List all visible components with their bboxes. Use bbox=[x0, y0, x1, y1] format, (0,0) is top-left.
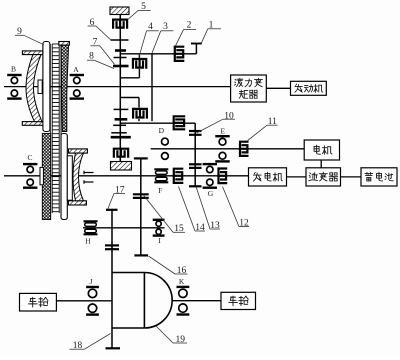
svg-text:12: 12 bbox=[239, 219, 249, 229]
gear pair on shaft 13 lower bbox=[189, 164, 202, 168]
bearing B bbox=[7, 75, 21, 99]
node C bbox=[27, 153, 32, 162]
label 10 bbox=[197, 111, 236, 133]
node I bbox=[158, 236, 161, 245]
clutch 4 upper output link bbox=[120, 54, 139, 78]
label 17 bbox=[108, 186, 125, 210]
wire shaft row3 (intermediate shaft axis H-I) bbox=[83, 227, 165, 229]
vertical gear shaft 13 bbox=[194, 123, 196, 186]
gear bar c bbox=[114, 57, 127, 59]
vertical planetary shaft (sun shaft) bbox=[119, 15, 121, 162]
gear bar g bbox=[113, 124, 126, 126]
node G bbox=[208, 189, 214, 198]
svg-text:13: 13 bbox=[210, 221, 220, 231]
node J bbox=[89, 277, 92, 286]
gear bar f bold bbox=[115, 118, 128, 121]
top pulley left cone bbox=[26, 55, 42, 122]
clutch 4 upper bbox=[133, 58, 146, 69]
final shaft bottom cap (item 18) bbox=[106, 347, 121, 349]
svg-text:D: D bbox=[159, 126, 165, 135]
wire shaft rowDE (motor shaft axis D-E) bbox=[151, 148, 305, 150]
clutch 10 bbox=[173, 116, 186, 129]
box battery 蓄电池 bbox=[361, 168, 397, 186]
label 12 bbox=[223, 187, 250, 229]
brake 6 comb bbox=[113, 15, 127, 29]
label 5 bbox=[128, 2, 151, 20]
label 15 bbox=[143, 195, 185, 235]
clutch 14 bbox=[173, 169, 184, 183]
ground frame lower bbox=[111, 162, 132, 171]
gear shaft 16 bottom cap bbox=[134, 254, 148, 256]
ground frame top (item 5 target) bbox=[110, 7, 129, 15]
vertical gear shaft 15/16 bbox=[140, 159, 142, 256]
node D bbox=[159, 126, 165, 135]
node B bbox=[11, 65, 16, 74]
gear bar d bold (item 8 target) bbox=[113, 65, 129, 68]
top pulley collar bbox=[38, 80, 42, 94]
bearing A bbox=[70, 75, 84, 99]
bearing J bbox=[86, 287, 99, 315]
top pulley centre disc bbox=[43, 42, 50, 132]
CVT chain wrap cross-hatch bbox=[42, 134, 50, 220]
clutch 4 lower input link bbox=[120, 98, 139, 122]
wire shaft row2 (output/generator shaft axis C-F-G) bbox=[4, 175, 249, 177]
wire inverter to battery bbox=[341, 176, 362, 178]
svg-text:K: K bbox=[179, 277, 185, 286]
label 8 bbox=[87, 52, 114, 69]
gear shaft 15 top cap bbox=[134, 157, 148, 159]
svg-text:C: C bbox=[27, 153, 32, 162]
box engine 发动机 bbox=[291, 81, 327, 95]
svg-text:B: B bbox=[11, 65, 16, 74]
box inverter 逆变器 bbox=[306, 168, 341, 186]
label 3 bbox=[152, 22, 173, 53]
clutch 11 bbox=[239, 142, 249, 156]
gear bar a on sun shaft bbox=[111, 39, 129, 41]
wire motor to inverter bbox=[320, 160, 322, 168]
label 14 bbox=[179, 187, 206, 234]
label 2 bbox=[176, 21, 197, 46]
node E bbox=[221, 127, 226, 136]
bearing I bbox=[153, 220, 165, 236]
top pulley right cone cap bbox=[59, 42, 70, 46]
node F bbox=[158, 186, 162, 195]
label 4 bbox=[139, 22, 159, 57]
bottom pulley centre disc bbox=[61, 134, 67, 220]
bottom pulley collar left bbox=[40, 167, 43, 184]
differential housing (item 19) bbox=[112, 273, 172, 329]
box generator 发电机 bbox=[249, 168, 287, 186]
gear bar i bold wide bbox=[111, 136, 131, 139]
pulley flange bottom-left bbox=[22, 122, 44, 126]
shaft end T (item 1) bbox=[191, 44, 202, 54]
gear bar h bbox=[111, 132, 126, 134]
CVT chain ladder bbox=[50, 44, 61, 213]
gear pair on shaft 13 upper bbox=[189, 131, 202, 135]
clutch 4 lower bbox=[133, 108, 147, 119]
svg-text:E: E bbox=[221, 127, 226, 136]
bearing F (rollers) bbox=[154, 169, 168, 182]
svg-text:6: 6 bbox=[90, 18, 95, 28]
wire torque converter to engine bbox=[266, 87, 290, 89]
label 19 bbox=[156, 326, 187, 345]
box torque converter 液力变矩器 bbox=[231, 75, 267, 102]
bearing C bbox=[23, 164, 37, 188]
box wheel right 车轮 bbox=[221, 292, 256, 309]
label 9 bbox=[15, 27, 44, 45]
wire clutch-10 branch y123 bbox=[120, 122, 195, 124]
svg-text:16: 16 bbox=[177, 266, 187, 276]
svg-text:H: H bbox=[85, 236, 91, 245]
bearing H (rollers) bbox=[84, 221, 98, 234]
gear bar b bold bbox=[115, 49, 126, 52]
svg-text:10: 10 bbox=[224, 111, 234, 121]
svg-text:17: 17 bbox=[115, 186, 125, 196]
wire shaft row1 (input shaft axis A-B) bbox=[4, 86, 231, 88]
node K bbox=[179, 277, 185, 286]
pulley flange top-left bbox=[22, 51, 43, 55]
brake lower comb bbox=[114, 148, 128, 162]
bottom pulley right cone bbox=[73, 153, 84, 201]
label 1 bbox=[202, 21, 222, 43]
box wheel left 车轮 bbox=[20, 293, 57, 311]
svg-text:F: F bbox=[158, 186, 162, 195]
gear pair on final shaft bbox=[105, 245, 119, 249]
wire axle right (to wheel K) bbox=[172, 300, 221, 302]
bearing D (circles only) bbox=[162, 138, 169, 159]
gear shaft 13 bottom cap bbox=[189, 185, 202, 187]
svg-text:A: A bbox=[73, 65, 79, 74]
pulley flange top-right bbox=[68, 149, 87, 153]
svg-text:G: G bbox=[208, 189, 214, 198]
svg-text:18: 18 bbox=[73, 341, 83, 351]
bottom pulley collar right bbox=[67, 156, 72, 200]
node H bbox=[85, 236, 91, 245]
pulley flange bottom-right bbox=[68, 201, 86, 205]
wire axle left (to wheel J) bbox=[56, 300, 112, 302]
top pulley right cone bbox=[61, 45, 69, 131]
label 13 bbox=[196, 187, 220, 232]
label 6 bbox=[88, 18, 111, 40]
label 18 bbox=[70, 334, 111, 352]
gear pair on shaft 15 bbox=[133, 194, 149, 198]
svg-text:19: 19 bbox=[176, 335, 186, 345]
node A bbox=[73, 65, 79, 74]
clutch 12 bbox=[217, 169, 227, 184]
box motor 电机 bbox=[304, 140, 339, 160]
svg-text:J: J bbox=[89, 277, 92, 286]
bearing G bbox=[203, 164, 217, 188]
vertical drum link outer (item 3) bbox=[151, 54, 153, 121]
bottom pulley clamp arm lower bbox=[84, 180, 94, 183]
label 11 bbox=[248, 117, 278, 141]
gear bar e bbox=[114, 108, 129, 110]
bottom pulley clamp arm upper bbox=[84, 171, 94, 174]
label 7 bbox=[91, 38, 115, 65]
vertical final shaft 17/18 bbox=[111, 210, 113, 348]
svg-text:14: 14 bbox=[195, 223, 205, 233]
bearing K bbox=[177, 287, 190, 315]
bearing E bbox=[215, 136, 229, 161]
wire clutch-2 branch y54 bbox=[120, 53, 196, 55]
label 16 bbox=[149, 256, 188, 276]
clutch 2 bbox=[174, 47, 185, 61]
wire generator to inverter bbox=[287, 176, 307, 178]
final shaft top cap (item 17) bbox=[106, 209, 118, 211]
